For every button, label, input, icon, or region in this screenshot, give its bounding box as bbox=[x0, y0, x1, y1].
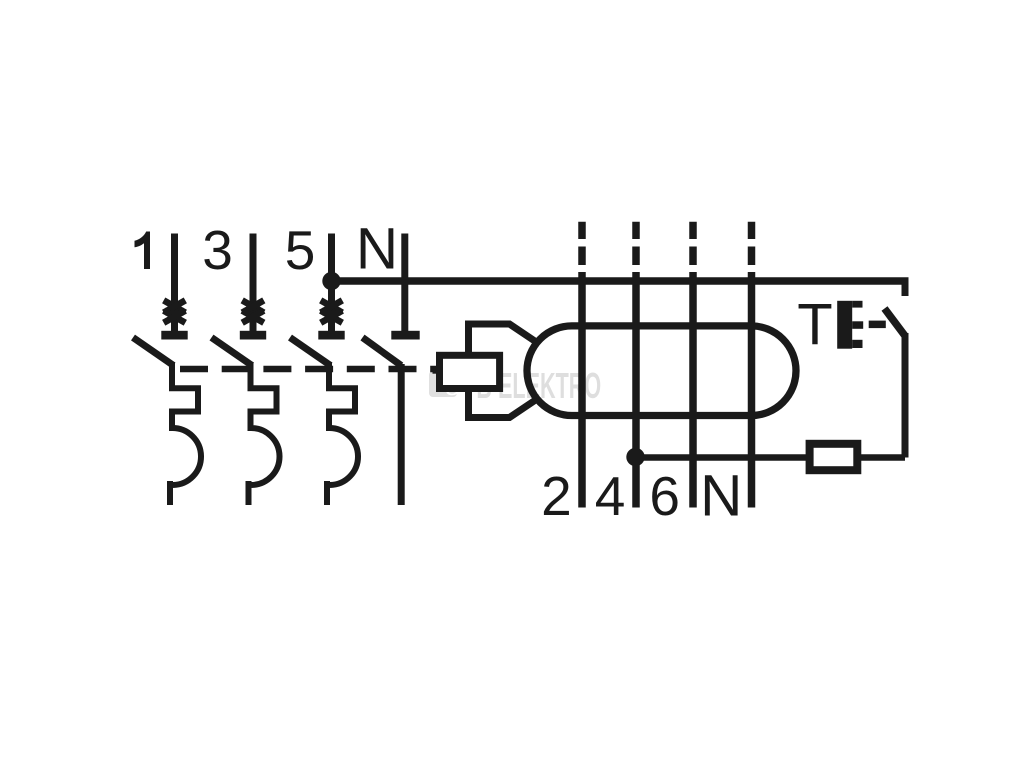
svg-text:3: 3 bbox=[202, 219, 233, 281]
svg-text:N: N bbox=[356, 216, 398, 281]
svg-text:T: T bbox=[797, 293, 832, 358]
svg-text:4: 4 bbox=[595, 465, 626, 527]
svg-text:6: 6 bbox=[649, 465, 680, 527]
svg-text:N: N bbox=[700, 463, 742, 528]
svg-text:2: 2 bbox=[541, 465, 572, 527]
svg-text:5: 5 bbox=[285, 219, 316, 281]
